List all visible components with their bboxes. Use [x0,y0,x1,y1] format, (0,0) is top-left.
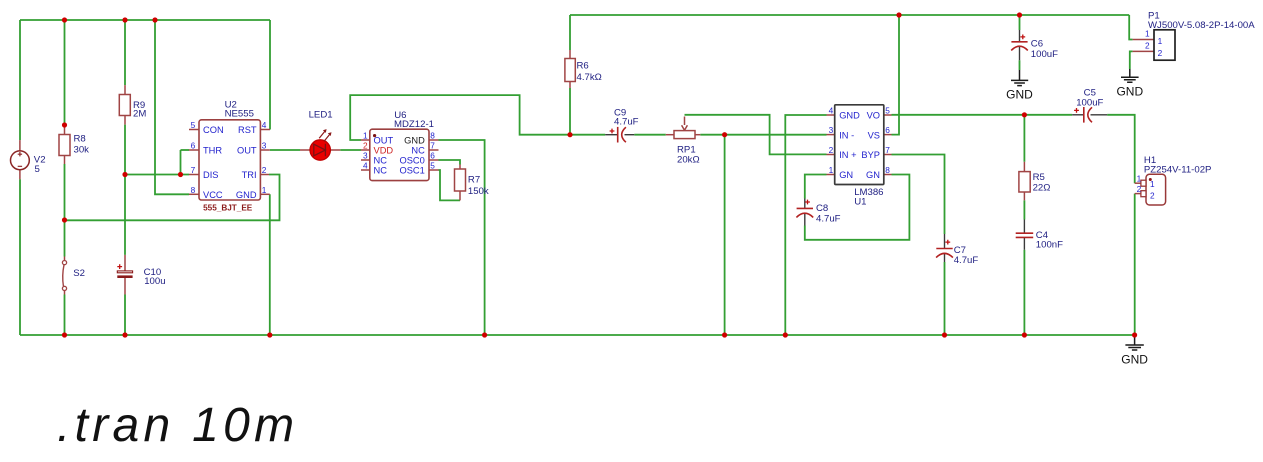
svg-text:5: 5 [191,120,196,130]
svg-text:150k: 150k [468,186,489,197]
svg-text:TRI: TRI [242,170,257,180]
svg-text:3: 3 [262,141,267,151]
svg-text:R6: R6 [577,61,589,72]
svg-text:R7: R7 [468,174,480,185]
svg-text:OSC1: OSC1 [399,166,424,176]
svg-text:1: 1 [1150,179,1155,189]
svg-text:2: 2 [1137,184,1142,194]
svg-text:WJ500V-5.08-2P-14-00A: WJ500V-5.08-2P-14-00A [1148,20,1255,31]
svg-text:VO: VO [867,111,880,121]
svg-text:GND: GND [404,136,425,146]
svg-text:5: 5 [430,161,435,171]
svg-text:2: 2 [1158,48,1163,58]
svg-text:GND: GND [1006,88,1033,102]
svg-text:1: 1 [262,185,267,195]
svg-text:CON: CON [203,125,224,135]
svg-text:22Ω: 22Ω [1033,182,1051,193]
svg-text:2: 2 [1145,41,1150,51]
svg-text:PZ254V-11-02P: PZ254V-11-02P [1144,165,1212,176]
svg-text:4.7uF: 4.7uF [954,255,979,266]
svg-text:R8: R8 [74,134,86,145]
svg-text:GN: GN [839,170,853,180]
svg-text:1: 1 [1137,174,1142,184]
svg-text:VDD: VDD [374,146,394,156]
svg-text:GND: GND [839,111,860,121]
svg-text:GN: GN [866,170,880,180]
svg-text:S2: S2 [73,268,85,279]
svg-text:THR: THR [203,146,222,156]
svg-text:IN +: IN + [839,150,856,160]
svg-text:7: 7 [430,141,435,151]
svg-text:8: 8 [191,185,196,195]
svg-text:20kΩ: 20kΩ [677,154,700,165]
svg-text:U1: U1 [854,197,866,208]
svg-text:C6: C6 [1031,39,1043,50]
svg-text:3: 3 [829,125,834,135]
svg-text:2: 2 [1150,190,1155,200]
svg-text:.tran 10m: .tran 10m [57,399,298,452]
svg-text:1: 1 [829,165,834,175]
svg-text:VS: VS [868,130,880,140]
svg-text:5: 5 [35,164,40,175]
svg-text:2: 2 [829,145,834,155]
svg-text:4.7uF: 4.7uF [816,213,841,224]
svg-text:3: 3 [363,151,368,161]
svg-text:RST: RST [238,125,257,135]
svg-text:30k: 30k [74,145,90,156]
svg-text:5: 5 [885,106,890,116]
svg-text:OUT: OUT [374,136,394,146]
svg-text:4: 4 [363,161,368,171]
svg-text:NC: NC [411,146,425,156]
svg-text:8: 8 [885,165,890,175]
svg-text:6: 6 [430,151,435,161]
svg-text:OUT: OUT [237,146,257,156]
svg-text:DIS: DIS [203,170,219,180]
svg-text:4: 4 [262,120,267,130]
svg-text:1: 1 [1158,36,1163,46]
svg-text:2: 2 [363,141,368,151]
svg-text:7: 7 [885,145,890,155]
svg-text:2: 2 [262,165,267,175]
svg-text:4: 4 [829,106,834,116]
svg-text:OSC0: OSC0 [399,156,424,166]
svg-text:NE555: NE555 [225,108,254,119]
svg-text:1: 1 [363,131,368,141]
svg-text:NC: NC [374,156,388,166]
svg-text:GND: GND [1116,85,1143,99]
svg-text:R5: R5 [1033,172,1045,183]
svg-text:GND: GND [236,190,257,200]
svg-text:2M: 2M [133,109,146,120]
svg-text:6: 6 [885,125,890,135]
svg-text:LED1: LED1 [309,110,333,121]
svg-text:100u: 100u [144,276,165,287]
svg-text:555_BJT_EE: 555_BJT_EE [203,203,253,212]
svg-text:GND: GND [1121,352,1148,366]
svg-text:NC: NC [374,166,388,176]
svg-text:4.7kΩ: 4.7kΩ [577,72,602,83]
svg-text:8: 8 [430,131,435,141]
svg-text:100uF: 100uF [1031,49,1058,60]
svg-text:4.7uF: 4.7uF [614,116,639,127]
svg-text:VCC: VCC [203,190,223,200]
svg-text:100uF: 100uF [1076,97,1103,108]
svg-text:6: 6 [191,141,196,151]
svg-text:MDZ12-1: MDZ12-1 [394,119,434,130]
svg-text:BYP: BYP [861,150,880,160]
svg-text:IN -: IN - [839,130,854,140]
svg-text:100nF: 100nF [1036,240,1063,251]
svg-text:7: 7 [191,165,196,175]
